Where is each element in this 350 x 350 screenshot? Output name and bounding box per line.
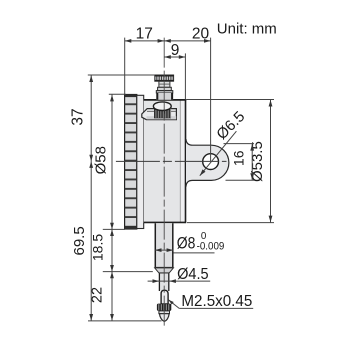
- svg-text:69.5: 69.5: [71, 226, 88, 255]
- spindle Ø4.5: [159, 273, 169, 291]
- dim 16 extension lines: [224, 143, 255, 145]
- dim line Ø4.5: [148, 280, 211, 282]
- extension line bottom tip: [88, 320, 162, 322]
- svg-text:Ø58: Ø58: [93, 146, 110, 174]
- svg-text:M2.5x0.45: M2.5x0.45: [181, 293, 252, 310]
- dim line 17 and 20: [125, 40, 211, 42]
- extension line bezel top: [109, 93, 126, 95]
- dim line Ø53.5: [270, 100, 272, 223]
- extension line spindle step: [103, 271, 153, 273]
- bezel clamp bracket: [142, 109, 177, 120]
- clamp thumbscrew (knurled): [154, 107, 171, 118]
- contact point tip: [159, 311, 170, 314]
- dim line 16: [251, 144, 253, 181]
- svg-text:-0.009: -0.009: [197, 240, 225, 252]
- bezel Ø58 knurled ring (side view): [125, 95, 137, 230]
- svg-text:Ø4.5: Ø4.5: [177, 266, 209, 283]
- extension line case top: [186, 99, 274, 101]
- knurled nut: [157, 304, 171, 311]
- top cap / stem knob: [155, 75, 174, 81]
- dim 17-20 extension lines: [124, 38, 126, 95]
- leader line hole: [200, 131, 237, 176]
- svg-text:18.5: 18.5: [89, 234, 105, 261]
- extension line top of cap: [88, 74, 155, 76]
- crystal rim ring: [137, 95, 144, 228]
- svg-text:17: 17: [136, 26, 153, 43]
- svg-text:9: 9: [171, 42, 180, 59]
- svg-text:20: 20: [192, 26, 210, 43]
- svg-text:37: 37: [69, 108, 86, 125]
- stem Ø8: [155, 223, 174, 267]
- vertical axis center line: [163, 38, 165, 328]
- svg-text:22: 22: [89, 287, 105, 303]
- case body: [144, 99, 187, 223]
- leader line thread: [168, 300, 179, 309]
- extension line bezel bottom: [103, 228, 125, 230]
- svg-text:16: 16: [230, 150, 246, 166]
- dim line Ø8: [155, 249, 173, 251]
- extension line case bottom: [187, 222, 274, 224]
- dim line 37 and 69.5: [90, 75, 92, 321]
- svg-text:Ø8: Ø8: [177, 235, 196, 253]
- lug (mounting ear): [186, 139, 229, 186]
- horizontal center line: [116, 160, 227, 162]
- lug hole Ø6.5: [203, 154, 219, 170]
- dim line Ø58 18.5 22: [111, 94, 113, 320]
- svg-text:Unit: mm: Unit: mm: [217, 20, 277, 37]
- contact point shank: [161, 290, 168, 304]
- dim line 9: [164, 56, 185, 58]
